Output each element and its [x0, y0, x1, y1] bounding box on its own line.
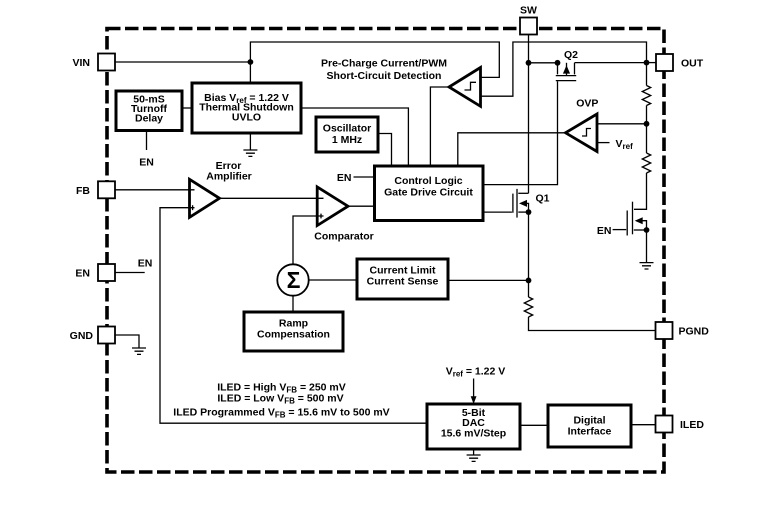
ground symbol below Bias [243, 150, 257, 156]
label Vref = 1.22 V above DAC [446, 366, 506, 379]
svg-text:UVLO: UVLO [232, 111, 261, 123]
wire 50-mS delay to Bias block [182, 107, 192, 109]
wire DAC to ground [473, 449, 475, 455]
label Error Amplifier [206, 160, 252, 183]
svg-text:Pre-Charge Current/PWM: Pre-Charge Current/PWM [321, 58, 447, 70]
wire current limit block to node C [448, 279, 529, 281]
wire GND pin to ground [114, 335, 139, 348]
wire error amplifier output to comparator [220, 197, 324, 199]
wire SW pin down to Q1 drain [528, 34, 530, 193]
label ILED high equation [217, 382, 346, 395]
svg-text:Compensation: Compensation [257, 329, 330, 341]
svg-text:15.6 mV/Step: 15.6 mV/Step [441, 428, 506, 440]
wire R3 to PGND pin [529, 317, 657, 331]
svg-text:Gate Drive Circuit: Gate Drive Circuit [384, 187, 473, 199]
wire Q1 source down to sense resistor [528, 212, 530, 297]
wire Bias block output to control logic top [301, 108, 408, 166]
transistor M3 shutdown FET (NMOS, gate from EN) [613, 202, 647, 236]
svg-text:Q1: Q1 [536, 193, 550, 205]
svg-text:EN: EN [597, 225, 612, 237]
ground symbol below shutdown FET [640, 263, 654, 269]
svg-text:ILED: ILED [680, 419, 704, 431]
label Q1 [536, 193, 550, 205]
block Ramp Compensation [244, 312, 343, 351]
pin EN [75, 264, 115, 281]
svg-text:Interface: Interface [568, 426, 612, 438]
svg-text:1 MHz: 1 MHz [332, 134, 362, 146]
wire Oscillator output to control logic top [378, 134, 392, 167]
wire OVP Vref input stub [597, 142, 610, 144]
wire sigma to comparator plus input [293, 216, 324, 265]
wire 50-mS delay EN stub [146, 131, 148, 151]
svg-text:GND: GND [70, 330, 94, 342]
wire Bias block to ground [249, 133, 251, 150]
op-amp error amplifier [190, 179, 220, 217]
node A junction dot [248, 59, 254, 65]
svg-text:Σ: Σ [287, 267, 301, 293]
svg-text:Delay: Delay [135, 113, 163, 125]
svg-text:FB: FB [76, 185, 90, 197]
label OVP [576, 98, 598, 110]
svg-text:Amplifier: Amplifier [206, 171, 252, 183]
block Oscillator 1 MHz [316, 117, 378, 152]
junction dot Q1 source [526, 209, 532, 215]
label Comparator [314, 231, 374, 243]
pin PGND [656, 322, 710, 339]
wire VIN to node A [113, 61, 250, 63]
block Bias / Thermal Shutdown / UVLO [192, 83, 301, 133]
node OUT junction dot [644, 60, 650, 66]
resistor R1 [642, 86, 650, 106]
wire sigma to current limit block [308, 279, 357, 281]
label ILED low equation [217, 393, 343, 406]
label Q2 [564, 49, 578, 61]
resistor R3 current sense [524, 297, 532, 317]
svg-text:Oscillator: Oscillator [323, 123, 371, 135]
wire DAC to digital interface [520, 424, 548, 426]
wire Vref arrow into DAC [471, 379, 477, 405]
pin OUT [656, 54, 704, 71]
pin FB [76, 181, 115, 198]
comparator pre-charge/short-circuit detection (points left) [449, 68, 481, 107]
svg-text:VIN: VIN [72, 57, 90, 69]
pin VIN [72, 54, 115, 71]
svg-text:Current Sense: Current Sense [367, 276, 439, 288]
wire digital interface to ILED pin [631, 424, 656, 426]
svg-text:EN: EN [75, 268, 90, 280]
wire comparator output to control logic [348, 205, 375, 207]
junction dot M3 source [644, 227, 650, 233]
svg-text:OVP: OVP [576, 98, 598, 110]
label Pre-Charge Current/PWM Short-Circuit Detection [321, 58, 447, 83]
label Vref at OVP input [616, 138, 634, 151]
pin SW [520, 5, 537, 35]
pin GND [70, 327, 115, 344]
wire node SW to Q2 source [529, 62, 558, 64]
block Digital Interface [548, 405, 631, 447]
wire node A to Bias block top [249, 62, 251, 83]
node B junction dot [644, 121, 650, 127]
block 5-Bit DAC [427, 404, 520, 449]
wire OVP top input from divider node B [597, 123, 647, 125]
wire feedback net: DAC to error amplifier non-inverting input [160, 208, 427, 424]
junction dot Q2 source [555, 60, 561, 66]
wire shutdown FET source to ground [646, 230, 648, 263]
pin ILED [656, 416, 705, 433]
node C junction dot [526, 278, 532, 284]
wire node OUT to resistor R1 [646, 63, 648, 86]
svg-text:EN: EN [138, 258, 153, 270]
block Control Logic Gate Drive Circuit [375, 166, 484, 221]
svg-text:PGND: PGND [679, 326, 710, 338]
wire node A to pre-charge comparator top input [250, 42, 499, 77]
svg-text:Q2: Q2 [564, 49, 578, 61]
label net EN at shutdown FET gate [597, 225, 612, 237]
svg-text:SW: SW [520, 5, 537, 17]
wire pre-charge comparator output to control logic top [430, 87, 449, 166]
svg-text:EN: EN [337, 172, 352, 184]
wire EN stub to control logic [354, 176, 375, 178]
label net EN at control logic [337, 172, 352, 184]
label ILED programmed equation [173, 407, 389, 420]
resistor R2 [642, 153, 650, 173]
svg-text:ILED = Low VFB = 500 mV: ILED = Low VFB = 500 mV [217, 393, 343, 406]
op-amp PWM comparator [317, 187, 348, 226]
block 50-mS Turnoff Delay [116, 91, 182, 131]
summing node sigma [277, 264, 308, 295]
wire pre-charge comparator bottom input to node OUT [481, 42, 647, 96]
wire node OUT to OUT pin [647, 62, 658, 64]
wire Q2 drain to node OUT [575, 62, 647, 64]
transistor Q1 (NMOS, vertical channel) [484, 189, 529, 218]
wire FB pin to error amplifier inverting input [114, 189, 195, 191]
IC boundary dashed border [107, 29, 664, 473]
block Current Limit Current Sense [357, 259, 448, 299]
wire sigma to ramp compensation [292, 295, 294, 312]
ground symbol at GND pin [132, 348, 146, 354]
comparator OVP (points left) [566, 114, 598, 152]
ground symbol below DAC [467, 455, 481, 461]
wire OVP output to control logic top [458, 133, 566, 166]
wire Q2 gate to control logic [484, 81, 558, 184]
svg-text:Control Logic: Control Logic [394, 175, 462, 187]
svg-text:EN: EN [139, 157, 154, 169]
svg-text:OUT: OUT [681, 58, 704, 70]
node SW junction dot [526, 60, 532, 66]
transistor Q2 (PMOS, horizontal) [556, 63, 576, 81]
svg-text:Short-Circuit Detection: Short-Circuit Detection [327, 70, 442, 82]
label net EN at EN pin wire [138, 258, 153, 270]
svg-text:Comparator: Comparator [314, 231, 374, 243]
wire EN pin stub [114, 272, 145, 274]
label net EN below 50-mS delay [139, 157, 154, 169]
wire R1 to node B to R2 [646, 106, 648, 154]
wire R2 to shutdown FET drain [634, 173, 647, 209]
